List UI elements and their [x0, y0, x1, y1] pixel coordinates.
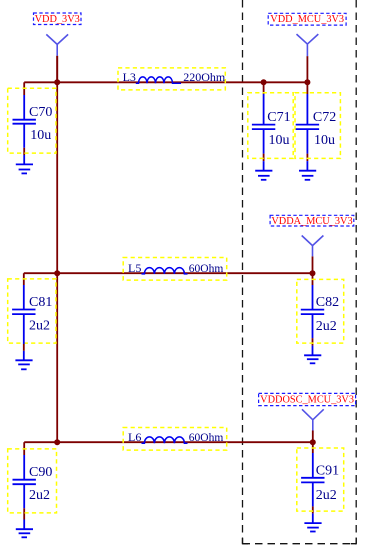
svg-text:C72: C72	[313, 110, 336, 125]
capacitor C70	[8, 88, 56, 153]
wire C82 drop	[312, 273, 314, 285]
svg-text:VDDOSC_MCU_3V3: VDDOSC_MCU_3V3	[260, 395, 354, 406]
power port VDD_MCU_3V3 symbol	[297, 34, 319, 56]
svg-text:VDD_3V3: VDD_3V3	[35, 14, 80, 25]
wire C70 drop	[23, 82, 25, 95]
svg-text:C71: C71	[267, 110, 290, 125]
wire row2 horizontal	[24, 272, 313, 274]
wire VDDA power stem red	[312, 256, 314, 273]
MCU dashed region border	[243, 0, 357, 544]
svg-text:2u2: 2u2	[29, 319, 50, 334]
wire C90 drop	[23, 442, 25, 455]
junction C82	[310, 270, 316, 276]
capacitor C90	[8, 449, 57, 513]
ground C70	[16, 155, 33, 173]
svg-text:10u: 10u	[269, 133, 290, 148]
net label VDD_MCU_3V3	[268, 13, 346, 25]
svg-text:10u: 10u	[314, 133, 335, 148]
svg-text:2u2: 2u2	[316, 319, 337, 334]
inductor L5	[123, 258, 227, 281]
svg-text:C90: C90	[29, 465, 52, 480]
net label VDDOSC_MCU_3V3	[259, 393, 356, 405]
wire row3 horizontal	[24, 441, 313, 443]
inductor L3	[118, 68, 226, 90]
wire left vertical bus	[56, 56, 58, 442]
power port VDD_3V3 symbol	[46, 34, 68, 55]
wire C71 drop	[263, 82, 265, 94]
wire C72 drop	[306, 82, 308, 94]
svg-text:10u: 10u	[30, 128, 51, 143]
capacitor C91	[297, 448, 344, 511]
svg-text:2u2: 2u2	[316, 488, 337, 503]
junction C91	[310, 439, 316, 445]
svg-text:2u2: 2u2	[29, 488, 50, 503]
svg-text:L6: L6	[128, 430, 141, 444]
ground C90	[16, 520, 33, 538]
junction row3 bus	[54, 439, 60, 445]
ground C81	[15, 351, 32, 370]
capacitor C71	[248, 93, 293, 159]
junction C72	[304, 79, 310, 85]
wire VDD power stem red	[56, 56, 58, 83]
junction row1 bus	[54, 79, 60, 85]
power port VDDA_MCU_3V3 symbol	[302, 236, 324, 257]
svg-text:L3: L3	[123, 70, 136, 84]
junction row2 bus	[54, 270, 60, 276]
svg-text:60Ohm: 60Ohm	[189, 432, 224, 444]
ground C71	[255, 161, 272, 180]
svg-text:C81: C81	[29, 295, 52, 310]
wire VDDOSC power stem red	[312, 431, 314, 443]
svg-text:VDD_MCU_3V3: VDD_MCU_3V3	[270, 14, 344, 25]
net label VDD_3V3	[34, 13, 82, 25]
capacitor C72	[295, 93, 340, 159]
wire C81 drop	[23, 273, 25, 285]
ground C82	[304, 346, 321, 364]
svg-text:C91: C91	[316, 464, 339, 479]
wire VDD_MCU power stem red	[306, 56, 308, 82]
wire C91 drop	[312, 442, 314, 453]
svg-text:VDDA_MCU_3V3: VDDA_MCU_3V3	[271, 216, 352, 227]
svg-text:C70: C70	[29, 105, 52, 120]
net label VDDA_MCU_3V3	[270, 215, 354, 227]
capacitor C81	[8, 279, 56, 344]
wire row1 horizontal	[24, 81, 307, 83]
power port VDDOSC_MCU_3V3 symbol	[302, 409, 324, 430]
svg-text:C82: C82	[316, 295, 339, 310]
svg-text:220Ohm: 220Ohm	[183, 70, 226, 84]
svg-text:L5: L5	[128, 261, 141, 275]
svg-text:60Ohm: 60Ohm	[189, 263, 224, 275]
inductor L6	[123, 428, 227, 451]
junction C71	[261, 79, 267, 85]
capacitor C82	[297, 279, 344, 343]
ground C72	[299, 161, 316, 180]
ground C91	[304, 513, 321, 531]
